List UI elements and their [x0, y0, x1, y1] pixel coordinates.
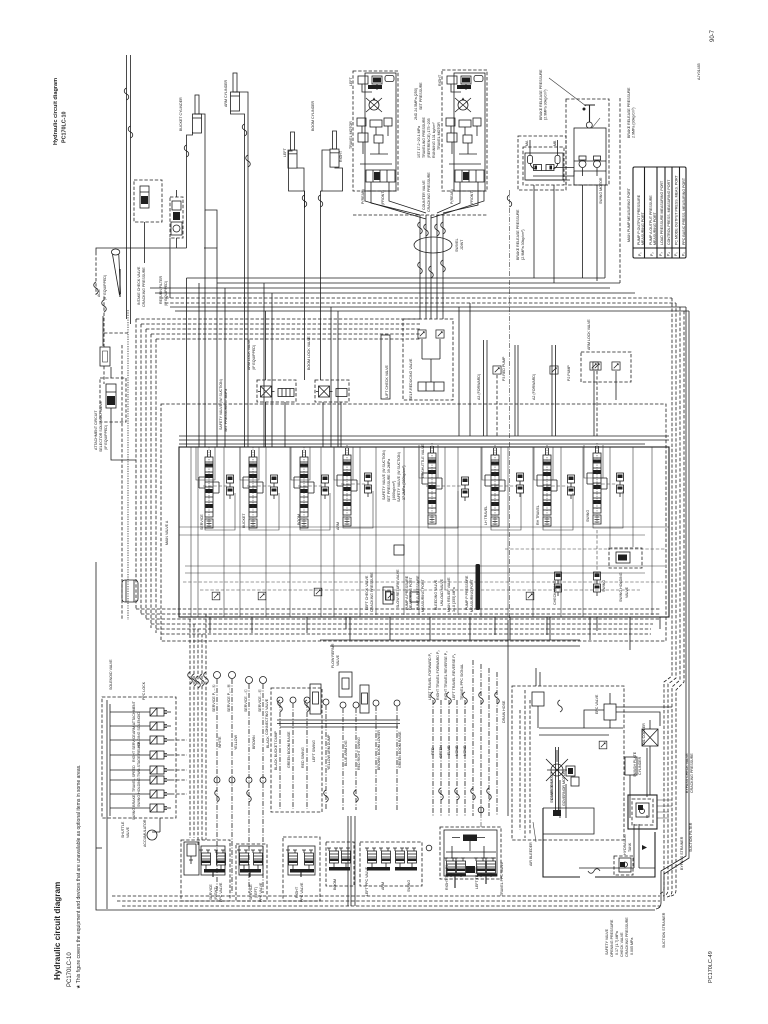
- svg-text:BLUE: BLUE: [447, 745, 451, 755]
- svg-text:P₅: P₅: [674, 252, 678, 256]
- svg-text:2ND 24.5MPa {250}: 2ND 24.5MPa {250}: [414, 87, 418, 120]
- svg-text:BOOM LOCK VALVE: BOOM LOCK VALVE: [307, 336, 311, 370]
- svg-text:SAFETY VALVE (W/ SUCTION): SAFETY VALVE (W/ SUCTION): [219, 379, 223, 430]
- svg-text:SERVICE→Ⓓ: SERVICE→Ⓓ: [257, 689, 262, 712]
- svg-text:AIR BLEEDER: AIR BLEEDER: [529, 842, 533, 866]
- svg-text:CONNECTING VALVE: CONNECTING VALVE: [265, 698, 269, 735]
- svg-text:GREEN: GREEN: [439, 745, 443, 758]
- svg-text:(IF EQUIPPED): (IF EQUIPPED): [103, 275, 107, 300]
- svg-text:BUCKET: BUCKET: [242, 513, 246, 528]
- svg-text:LH TRAVEL: LH TRAVEL: [484, 506, 488, 525]
- svg-text:A3 (FORWARD): A3 (FORWARD): [477, 374, 481, 400]
- svg-text:RIGHT TRAVEL FORWARD P₂: RIGHT TRAVEL FORWARD P₂: [436, 650, 440, 700]
- svg-text:YELLOW ARM DUMP: YELLOW ARM DUMP: [327, 734, 331, 770]
- svg-text:DRAIN HOSE: DRAIN HOSE: [502, 700, 506, 723]
- svg-text:SELF-REDUCING VALVE: SELF-REDUCING VALVE: [409, 358, 413, 400]
- svg-text:P₁: P₁: [638, 252, 642, 256]
- svg-text:RETURN FILTER: RETURN FILTER: [159, 276, 163, 304]
- svg-text:ACCUMULATOR: ACCUMULATOR: [143, 819, 147, 847]
- svg-text:(IF EQUIPPED): (IF EQUIPPED): [164, 281, 168, 306]
- svg-text:PUMP B PRESSURE: PUMP B PRESSURE: [416, 575, 420, 610]
- svg-text:VALVE: VALVE: [625, 586, 629, 598]
- svg-text:MAIN VALVE A: MAIN VALVE A: [165, 520, 169, 545]
- svg-text:SWING: SWING: [586, 510, 590, 522]
- svg-text:LEFT PPC VALVE: LEFT PPC VALVE: [365, 866, 369, 896]
- svg-text:SELECTOR SOLENOID VALVE: SELECTOR SOLENOID VALVE: [99, 400, 103, 452]
- svg-text:BRAKE RELEASE PRESSURE: BRAKE RELEASE PRESSURE: [516, 209, 520, 260]
- svg-text:SUCTION FILTER: SUCTION FILTER: [689, 822, 693, 852]
- svg-text:BYPASS CHECK VALVE: BYPASS CHECK VALVE: [685, 753, 689, 793]
- svg-text:SET PRESSURE: SET PRESSURE: [419, 82, 423, 110]
- svg-text:SERVICE→Ⓒ: SERVICE→Ⓒ: [243, 689, 248, 712]
- svg-text:TRAVEL MOTOR: TRAVEL MOTOR: [349, 121, 353, 149]
- svg-text:HYDRAULIC: HYDRAULIC: [623, 834, 627, 855]
- svg-text:MAIN PUMP MEASURING PORT: MAIN PUMP MEASURING PORT: [627, 187, 631, 242]
- svg-text:BLACK: BLACK: [266, 736, 270, 748]
- svg-text:RIGHT: RIGHT: [438, 74, 442, 86]
- svg-text:ARM ATTACHMENT: ARM ATTACHMENT: [132, 700, 136, 734]
- svg-text:SWING HOLDING: SWING HOLDING: [137, 777, 141, 807]
- svg-text:BROWN: BROWN: [252, 735, 256, 749]
- svg-text:{2.9MPa 30kg/cm²}: {2.9MPa 30kg/cm²}: [521, 229, 525, 260]
- svg-text:SERVICE P₁→Ⓐ: SERVICE P₁→Ⓐ: [211, 684, 216, 712]
- svg-text:Hydraulic circuit diagram: Hydraulic circuit diagram: [53, 882, 62, 980]
- svg-text:NONE: NONE: [463, 745, 467, 756]
- svg-text:{400kg/cm²}: {400kg/cm²}: [392, 480, 396, 500]
- svg-text:MEASURING PORT: MEASURING PORT: [421, 579, 425, 612]
- svg-text:2.9MPa {30kg/cm²}: 2.9MPa {30kg/cm²}: [632, 107, 636, 138]
- svg-text:VALVE: VALVE: [126, 826, 130, 838]
- svg-text:(FRONT): (FRONT): [381, 190, 385, 205]
- svg-text:EPC VALVE: EPC VALVE: [595, 694, 599, 714]
- svg-text:TRAVEL PPC SIGNAL: TRAVEL PPC SIGNAL: [460, 664, 464, 700]
- svg-text:BYPASS STRAINER: BYPASS STRAINER: [680, 836, 684, 870]
- svg-text:COUNTER VALVE: COUNTER VALVE: [422, 180, 426, 210]
- svg-text:CHECK VALVE: CHECK VALVE: [553, 580, 557, 605]
- svg-text:SHUTTLE: SHUTTLE: [121, 821, 125, 838]
- svg-text:MB: MB: [553, 140, 557, 146]
- svg-text:RIGHT: RIGHT: [339, 150, 343, 162]
- svg-text:A2 (FORWARD): A2 (FORWARD): [532, 374, 536, 400]
- svg-text:GREEN BOOM RAISE: GREEN BOOM RAISE: [287, 731, 291, 768]
- svg-text:TWO-STAGE RELIEF: TWO-STAGE RELIEF: [137, 741, 141, 777]
- svg-text:P₃: P₃: [659, 252, 663, 256]
- svg-text:OIL COOLER: OIL COOLER: [642, 723, 646, 745]
- svg-text:TRAVEL MOTOR: TRAVEL MOTOR: [437, 122, 441, 150]
- svg-text:TRAVEL PPC VALVE: TRAVEL PPC VALVE: [500, 861, 504, 896]
- svg-text:PPC VALVE: PPC VALVE: [259, 882, 263, 902]
- svg-text:0.17 {1.7} MPa: 0.17 {1.7} MPa: [615, 931, 619, 955]
- svg-text:BOOM: BOOM: [297, 514, 301, 525]
- svg-text:SET PRESSURE 39.2MPa: SET PRESSURE 39.2MPa: [387, 459, 391, 502]
- svg-text:PPC LOCK: PPC LOCK: [142, 681, 146, 700]
- svg-text:MA: MA: [525, 140, 529, 146]
- svg-text:SWIVEL: SWIVEL: [455, 238, 459, 252]
- svg-text:CRACKING PRESSURE: CRACKING PRESSURE: [625, 917, 629, 957]
- svg-text:{2.9MPa 30kg/cm²}: {2.9MPa 30kg/cm²}: [544, 89, 548, 120]
- svg-text:UNLOAD VALVE: UNLOAD VALVE: [440, 578, 444, 606]
- svg-text:PPC BASIC PRESS. MEASURING POR: PPC BASIC PRESS. MEASURING PORT: [682, 177, 686, 245]
- svg-text:BUCKET CYLINDER: BUCKET CYLINDER: [179, 97, 183, 131]
- svg-text:PC MODE OUTPUT PRESS. MEAS. PO: PC MODE OUTPUT PRESS. MEAS. PORT: [675, 174, 679, 245]
- svg-text:BROWN BOOM LOWER: BROWN BOOM LOWER: [377, 730, 381, 770]
- svg-text:TRAVELING PRESSURE: TRAVELING PRESSURE: [422, 117, 426, 158]
- svg-text:FLOW REPAIR: FLOW REPAIR: [331, 643, 335, 668]
- svg-text:RH TRAVEL: RH TRAVEL: [536, 505, 540, 525]
- svg-text:SOLENOID VALVE: SOLENOID VALVE: [109, 659, 113, 690]
- svg-text:LEFT SWING: LEFT SWING: [312, 740, 316, 762]
- svg-text:CHECK VALVE: CHECK VALVE: [620, 932, 624, 957]
- svg-text:(RIGHT): (RIGHT): [214, 886, 218, 900]
- svg-text:SAFETY VALVE (W SUCTION): SAFETY VALVE (W SUCTION): [382, 450, 386, 500]
- svg-text:CONTROL PRESS. MEASURING PORT: CONTROL PRESS. MEASURING PORT: [667, 179, 671, 245]
- svg-text:0.005 MPa: 0.005 MPa: [630, 938, 634, 955]
- svg-text:(REFERENCE) 175−205: (REFERENCE) 175−205: [427, 118, 431, 158]
- svg-text:(IF EQUIPPED): (IF EQUIPPED): [104, 425, 108, 450]
- svg-text:Hydraulic circuit diagram: Hydraulic circuit diagram: [53, 78, 59, 145]
- svg-text:PPC VALVE: PPC VALVE: [300, 882, 304, 902]
- svg-text:CRACKING PRESSURE: CRACKING PRESSURE: [427, 172, 431, 212]
- svg-text:ARM: ARM: [381, 882, 385, 890]
- svg-text:ATTACHMENT CIRCUIT: ATTACHMENT CIRCUIT: [94, 410, 98, 450]
- svg-text:SWASH PLATE: SWASH PLATE: [633, 751, 637, 777]
- svg-text:BLEEDING VALVE: BLEEDING VALVE: [434, 579, 438, 610]
- svg-text:NONE: NONE: [455, 745, 459, 756]
- svg-text:SWING: SWING: [602, 580, 606, 592]
- svg-text:MEASURING PORT: MEASURING PORT: [470, 579, 474, 612]
- svg-text:(FRONT): (FRONT): [470, 190, 474, 205]
- svg-text:BLACK BUCKET DUMP: BLACK BUCKET DUMP: [274, 731, 278, 770]
- svg-text:INTAKE CHECK VALVE: INTAKE CHECK VALVE: [137, 266, 141, 305]
- svg-text:TANK: TANK: [628, 842, 632, 852]
- svg-text:MAIN RELIEF VALVE: MAIN RELIEF VALVE: [447, 577, 451, 612]
- svg-text:RED: RED: [431, 747, 435, 755]
- svg-text:RED SWING: RED SWING: [301, 747, 305, 768]
- svg-text:PC170LC-10: PC170LC-10: [67, 952, 73, 987]
- svg-text:ARM CYLINDER: ARM CYLINDER: [224, 79, 228, 107]
- svg-text:P₆: P₆: [682, 252, 686, 256]
- svg-text:SAFETY VALVE (W SUCTION): SAFETY VALVE (W SUCTION): [397, 452, 401, 502]
- svg-text:37.2MPa {380kg/cm²}: 37.2MPa {380kg/cm²}: [402, 465, 406, 500]
- svg-text:P(REAR): P(REAR): [450, 189, 454, 204]
- svg-text:LEFT: LEFT: [349, 76, 353, 86]
- svg-text:CRACKING PRESSURE: CRACKING PRESSURE: [690, 753, 694, 793]
- svg-text:CYLINDER: CYLINDER: [638, 756, 642, 775]
- svg-text:LEFT: LEFT: [283, 147, 287, 157]
- svg-text:1ST 17.2−20.1 MPa: 1ST 17.2−20.1 MPa: [417, 126, 421, 158]
- svg-text:34.8 {355} MPa: 34.8 {355} MPa: [452, 587, 456, 612]
- svg-text:P₂: P₂: [650, 252, 654, 256]
- svg-text:BRAKE RELEASE PRESSURE: BRAKE RELEASE PRESSURE: [627, 87, 631, 138]
- svg-text:90-7: 90-7: [710, 29, 716, 42]
- svg-text:P2 PUMP: P2 PUMP: [567, 365, 571, 381]
- svg-text:SERVICE: SERVICE: [249, 884, 253, 900]
- svg-text:LS SHUTTLE VALVE: LS SHUTTLE VALVE: [421, 444, 425, 478]
- svg-text:BOOM CYLINDER: BOOM CYLINDER: [311, 100, 315, 131]
- svg-text:PC170LC-49: PC170LC-49: [708, 951, 714, 983]
- svg-text:GREEN BOOM RAISE: GREEN BOOM RAISE: [398, 731, 402, 768]
- svg-text:BLUE ARM DIG: BLUE ARM DIG: [344, 740, 348, 766]
- svg-text:DAMPER SHAFT: DAMPER SHAFT: [550, 771, 554, 800]
- svg-text:ARM: ARM: [336, 522, 340, 530]
- svg-text:GOVERNOR MOTOR: GOVERNOR MOTOR: [562, 770, 566, 806]
- svg-text:CRACKING PRESSURE: CRACKING PRESSURE: [142, 267, 146, 307]
- svg-text:CRACKING PRESSURE: CRACKING PRESSURE: [370, 572, 374, 612]
- svg-text:RIGHT SERVICE: RIGHT SERVICE: [132, 734, 136, 762]
- svg-text:BRAKE RELEASE PRESSURE: BRAKE RELEASE PRESSURE: [539, 69, 543, 120]
- svg-text:LEFT CHECK VALVE: LEFT CHECK VALVE: [365, 575, 369, 610]
- svg-text:ARM LOCK VALVE: ARM LOCK VALVE: [587, 319, 591, 350]
- svg-text:SWING MOTOR: SWING MOTOR: [599, 177, 603, 204]
- svg-text:MEASURING PORT: MEASURING PORT: [409, 577, 413, 610]
- svg-text:SERVICE P₂→Ⓑ: SERVICE P₂→Ⓑ: [226, 684, 231, 712]
- svg-text:★ This figure covers the equip: ★ This figure covers the equipment and d…: [76, 764, 82, 989]
- svg-text:LEFT TRAVEL REVERSE P₄: LEFT TRAVEL REVERSE P₄: [452, 653, 456, 700]
- svg-text:PPC VALVE: PPC VALVE: [219, 882, 223, 902]
- svg-text:SLOW RETURN VALVE: SLOW RETURN VALVE: [396, 569, 400, 608]
- svg-text:LIFT CHECK VALVE: LIFT CHECK VALVE: [385, 364, 389, 398]
- svg-text:SERVICE: SERVICE: [200, 514, 204, 530]
- svg-text:(IF EQUIPPED): (IF EQUIPPED): [252, 345, 256, 370]
- svg-text:LEFT TRAVEL: LEFT TRAVEL: [475, 866, 479, 889]
- svg-text:SWING: SWING: [407, 880, 411, 892]
- svg-text:YELLOW: YELLOW: [234, 734, 238, 750]
- svg-text:RUNNING 131 kg/cm²: RUNNING 131 kg/cm²: [432, 122, 436, 158]
- svg-text:WHITE: WHITE: [218, 736, 222, 748]
- svg-text:MEASURING PORT: MEASURING PORT: [653, 212, 657, 245]
- svg-text:OPENING PRESSURE: OPENING PRESSURE: [610, 919, 614, 957]
- svg-text:JOINT: JOINT: [460, 239, 464, 250]
- svg-text:MEASURING PORT: MEASURING PORT: [641, 212, 645, 245]
- svg-text:RIGHT TRAVEL: RIGHT TRAVEL: [445, 864, 449, 890]
- svg-text:P(REAR): P(REAR): [361, 189, 365, 204]
- svg-text:PC170LC-10: PC170LC-10: [62, 112, 68, 143]
- svg-text:SWING HOLDING: SWING HOLDING: [619, 572, 623, 602]
- svg-text:RED RIGHT SWING: RED RIGHT SWING: [357, 737, 361, 770]
- svg-text:BOOM: BOOM: [333, 879, 337, 890]
- svg-text:TRAVEL SPEED: TRAVEL SPEED: [132, 765, 136, 792]
- svg-text:SUCTION STRAINER: SUCTION STRAINER: [662, 912, 666, 948]
- svg-text:P₄: P₄: [667, 252, 671, 256]
- svg-text:P3 RED PUMP: P3 RED PUMP: [502, 356, 506, 381]
- svg-text:LOAD PRESSURE MEASURING PORT: LOAD PRESSURE MEASURING PORT: [660, 180, 664, 245]
- svg-text:VALVE: VALVE: [336, 654, 340, 666]
- svg-text:AJY01485: AJY01485: [697, 63, 701, 80]
- svg-text:SWING BRAKE: SWING BRAKE: [132, 794, 136, 820]
- svg-text:SERVICE: SERVICE: [209, 884, 213, 900]
- svg-text:PUMP P PRESSURE: PUMP P PRESSURE: [465, 575, 469, 610]
- svg-text:SAFETY VALVE: SAFETY VALVE: [605, 928, 609, 955]
